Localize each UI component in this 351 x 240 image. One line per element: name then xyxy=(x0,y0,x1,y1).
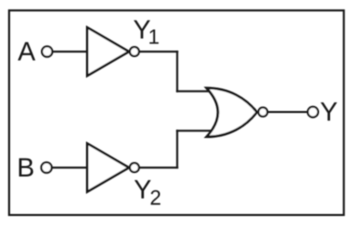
inverter 2 (NOT gate on input B) xyxy=(87,143,129,191)
label Y2 subscript xyxy=(151,190,160,205)
wire inverter 2 output horizontal xyxy=(139,167,178,169)
wire into NOR top input xyxy=(176,90,214,92)
wire into NOR bottom input xyxy=(176,130,214,132)
NOR gate output bubble xyxy=(258,108,267,117)
inverter 1 (NOT gate on input A) xyxy=(87,27,129,75)
label A xyxy=(18,42,36,60)
wire NOR output to terminal Y xyxy=(267,111,308,113)
wire A terminal to inverter 1 xyxy=(52,51,89,53)
wire B terminal to inverter 2 xyxy=(52,167,89,169)
input terminal A xyxy=(42,46,52,56)
output terminal Y xyxy=(308,107,318,117)
NOR gate body (OR shape) xyxy=(207,88,257,137)
label Y1 subscript xyxy=(150,29,159,43)
label Y1 xyxy=(134,20,151,38)
wire vertical riser top xyxy=(176,51,178,93)
inverter 2 output bubble xyxy=(130,163,139,172)
wire inverter 1 output horizontal xyxy=(139,51,178,53)
input terminal B xyxy=(41,162,51,172)
wire vertical riser bottom xyxy=(176,130,178,169)
label Y xyxy=(321,102,338,120)
label B xyxy=(19,158,33,176)
inverter 1 output bubble xyxy=(130,47,139,56)
label Y2 xyxy=(134,180,151,198)
